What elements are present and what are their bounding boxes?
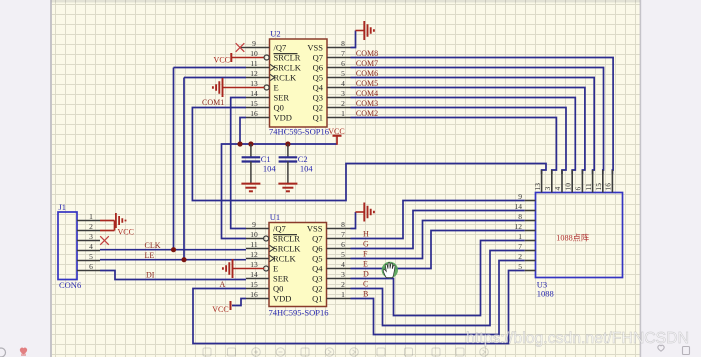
- svg-text:1: 1: [518, 232, 522, 241]
- svg-text:E: E: [363, 260, 368, 269]
- svg-text:6: 6: [341, 59, 345, 68]
- svg-text:12: 12: [250, 69, 258, 78]
- svg-text:16: 16: [604, 183, 613, 191]
- svg-text:5: 5: [89, 252, 93, 261]
- svg-text:15: 15: [594, 183, 603, 191]
- svg-text:B: B: [363, 290, 368, 299]
- power VCC at J1 pins 1-2: [100, 213, 134, 237]
- junction VCC rail / U2 VDD: [237, 141, 242, 146]
- wire net SER chain U1 /Q7 to U2 SER: [231, 98, 246, 229]
- svg-text:14: 14: [250, 89, 258, 98]
- wire U1 VSS to ground: [351, 212, 356, 229]
- svg-text:U2: U2: [270, 29, 280, 39]
- C1 designator and value 104: [261, 154, 277, 174]
- player control icons bottom: [203, 348, 488, 357]
- svg-text:C1: C1: [261, 154, 271, 164]
- svg-text:15: 15: [250, 280, 258, 289]
- svg-text:7: 7: [341, 230, 345, 239]
- svg-text:E: E: [273, 263, 278, 273]
- wire net COM1: [192, 108, 546, 201]
- power VCC at U2 VDD rail: [328, 127, 344, 145]
- svg-text:Q1: Q1: [313, 112, 323, 122]
- svg-text:Q3: Q3: [313, 92, 323, 102]
- svg-text:RCLK: RCLK: [274, 72, 298, 82]
- ground at U2 VSS pin 8: [356, 21, 374, 40]
- svg-text:C: C: [363, 280, 368, 289]
- svg-text:SER: SER: [274, 92, 290, 102]
- svg-text:VSS: VSS: [307, 223, 323, 233]
- svg-text:VCC: VCC: [328, 127, 344, 136]
- svg-text:104: 104: [300, 164, 314, 174]
- svg-text:12: 12: [250, 250, 258, 259]
- wire net COM8: [351, 58, 614, 175]
- svg-text:COM2: COM2: [356, 109, 378, 118]
- no-connect X on J1 pin 3: [100, 236, 109, 245]
- svg-text:VCC: VCC: [118, 228, 134, 237]
- svg-text:Q4: Q4: [312, 263, 323, 273]
- junction LE: [181, 257, 186, 262]
- svg-text:1: 1: [341, 109, 345, 118]
- svg-text:Q7: Q7: [312, 233, 322, 243]
- svg-text:Q4: Q4: [313, 82, 324, 92]
- U2 right pin numbers: [341, 39, 345, 118]
- svg-text:11: 11: [250, 59, 257, 68]
- svg-text:11: 11: [584, 183, 593, 190]
- svg-text:SRCLK: SRCLK: [274, 62, 302, 72]
- svg-text:3: 3: [341, 270, 345, 279]
- svg-text:COM1: COM1: [202, 98, 224, 107]
- svg-text:3: 3: [543, 187, 552, 191]
- svg-text:1088点阵: 1088点阵: [556, 232, 589, 242]
- svg-text:13: 13: [250, 260, 258, 269]
- svg-text:CON6: CON6: [59, 280, 81, 290]
- svg-text:104: 104: [263, 164, 277, 174]
- svg-text:5: 5: [518, 262, 522, 271]
- svg-text:COM4: COM4: [356, 89, 378, 98]
- svg-text:H: H: [363, 230, 369, 239]
- svg-text:C2: C2: [298, 154, 308, 164]
- svg-text:https://blog.csdn.net/FHNCSDN: https://blog.csdn.net/FHNCSDN: [466, 330, 689, 347]
- wire net COM7: [351, 68, 604, 175]
- svg-text:SER: SER: [273, 273, 289, 283]
- svg-text:Q2: Q2: [312, 283, 322, 293]
- svg-text:2: 2: [341, 99, 345, 108]
- IC U2 74HC595 body: [270, 39, 328, 127]
- svg-text:6: 6: [89, 262, 93, 271]
- svg-text:15: 15: [250, 99, 258, 108]
- svg-text:5: 5: [341, 250, 345, 259]
- wire U1 VDD to VCC: [232, 299, 246, 306]
- wire net LE: [100, 259, 246, 261]
- wire net COM2: [351, 118, 557, 175]
- wire net COM5: [351, 88, 585, 175]
- svg-text:8: 8: [341, 220, 345, 229]
- ground at U2 pin 13: [213, 78, 264, 97]
- junction VCC rail / C1: [248, 141, 253, 146]
- svg-text:VCC: VCC: [212, 305, 228, 314]
- svg-text:3: 3: [89, 232, 93, 241]
- wire net VCC rail (U2 VDD, C1, C2, U1 SRCLR): [240, 118, 246, 145]
- junction CLK: [171, 247, 176, 252]
- svg-text:10: 10: [563, 183, 572, 191]
- wire net E: [351, 231, 525, 269]
- connector J1 body: [58, 212, 77, 280]
- svg-text:DI: DI: [146, 271, 155, 280]
- mouse cursor highlight: [382, 262, 398, 278]
- svg-text:16: 16: [250, 290, 258, 299]
- svg-text:Q6: Q6: [313, 62, 323, 72]
- wire net F: [351, 221, 525, 259]
- U2 left pins 9-16: [231, 48, 274, 118]
- svg-text:/Q7: /Q7: [273, 223, 286, 233]
- svg-text:9: 9: [518, 192, 522, 201]
- svg-text:14: 14: [515, 202, 523, 211]
- dot matrix U3 body: [536, 193, 623, 278]
- svg-text:2: 2: [341, 280, 345, 289]
- U1 left pin numbers: [250, 220, 258, 299]
- svg-text:VSS: VSS: [307, 42, 323, 52]
- svg-text:J1: J1: [59, 202, 67, 212]
- svg-text:11: 11: [250, 240, 257, 249]
- U1 right pins 1-8: [327, 229, 351, 299]
- svg-text:/Q7: /Q7: [274, 42, 287, 52]
- svg-text:7: 7: [341, 49, 345, 58]
- svg-text:4: 4: [341, 260, 345, 269]
- U3 left pins: [525, 201, 536, 271]
- svg-text:1088: 1088: [537, 289, 554, 299]
- svg-text:SRCLK: SRCLK: [273, 243, 301, 253]
- svg-text:4: 4: [341, 79, 345, 88]
- wire U2 VSS to ground: [351, 31, 356, 48]
- connector J1 pins: [77, 221, 100, 271]
- svg-text:74HC595-SOP16: 74HC595-SOP16: [269, 127, 329, 137]
- svg-text:E: E: [274, 82, 279, 92]
- svg-text:3: 3: [341, 89, 345, 98]
- svg-text:5: 5: [341, 69, 345, 78]
- svg-text:Q3: Q3: [312, 273, 322, 283]
- svg-text:2: 2: [518, 252, 522, 261]
- svg-text:Q7: Q7: [313, 52, 323, 62]
- U2 pin labels: [274, 42, 324, 122]
- svg-text:13: 13: [533, 183, 542, 191]
- J1 pin numbers: [89, 212, 93, 271]
- svg-text:Q2: Q2: [313, 102, 323, 112]
- wire net B: [351, 261, 525, 335]
- U1 left pins 9-16: [246, 229, 274, 299]
- U2 left pin numbers: [250, 39, 258, 118]
- U3 left pin numbers: [515, 192, 523, 271]
- svg-text:12: 12: [515, 222, 523, 231]
- svg-text:Q5: Q5: [313, 72, 323, 82]
- svg-text:VDD: VDD: [274, 112, 292, 122]
- svg-text:8: 8: [518, 212, 522, 221]
- svg-text:COM7: COM7: [356, 59, 378, 68]
- junction VCC rail / C2: [285, 141, 290, 146]
- svg-text:U1: U1: [270, 212, 280, 222]
- U1 right pin numbers: [341, 220, 345, 299]
- svg-text:2: 2: [89, 222, 93, 231]
- svg-text:10: 10: [250, 49, 258, 58]
- svg-text:1: 1: [341, 290, 345, 299]
- svg-text:74HC595-SOP16: 74HC595-SOP16: [269, 308, 329, 318]
- wire net COM4: [351, 98, 576, 175]
- svg-text:13: 13: [250, 79, 258, 88]
- wire net CLK: [100, 249, 246, 251]
- svg-text:COM3: COM3: [356, 99, 378, 108]
- svg-text:7: 7: [518, 242, 522, 251]
- svg-text:COM6: COM6: [356, 69, 378, 78]
- svg-text:14: 14: [250, 270, 258, 279]
- wire net DI: [100, 271, 246, 280]
- svg-text:16: 16: [250, 109, 258, 118]
- capacitor C1: [241, 144, 260, 191]
- svg-text:1: 1: [89, 212, 93, 221]
- power VCC bar at U2 pin 10: [214, 53, 232, 64]
- svg-text:LE: LE: [145, 251, 155, 260]
- svg-text:4: 4: [553, 187, 562, 191]
- svg-text:9: 9: [252, 220, 256, 229]
- wire net C: [351, 251, 525, 326]
- C2 designator and value 104: [298, 154, 314, 174]
- U3 top pin numbers: [533, 183, 613, 191]
- IC U1 74HC595 body: [269, 223, 327, 307]
- svg-text:10: 10: [250, 230, 258, 239]
- svg-text:Q6: Q6: [312, 243, 322, 253]
- ground at U1 pin 13: [223, 259, 264, 278]
- svg-text:VCC: VCC: [214, 55, 230, 64]
- wire net A: [193, 271, 525, 344]
- svg-text:Q0: Q0: [274, 102, 284, 112]
- svg-text:VDD: VDD: [273, 293, 291, 303]
- wire net G: [351, 211, 525, 249]
- svg-text:A: A: [220, 280, 226, 289]
- no-connect X on U2 pin 9 /Q7: [240, 47, 246, 49]
- svg-text:RCLK: RCLK: [273, 253, 297, 263]
- power VCC at U1 VDD: [212, 301, 230, 314]
- svg-text:Q5: Q5: [312, 253, 322, 263]
- right margin icons: [658, 345, 690, 354]
- svg-text:Q1: Q1: [312, 293, 322, 303]
- wire net COM3: [351, 108, 567, 175]
- svg-text:D: D: [363, 270, 369, 279]
- wire net COM6: [351, 78, 595, 175]
- U3 top pins: [542, 170, 613, 193]
- svg-text:4: 4: [89, 242, 93, 251]
- svg-text:COM5: COM5: [356, 79, 378, 88]
- svg-text:6: 6: [574, 187, 583, 191]
- ground at U1 VSS pin 8: [356, 203, 374, 222]
- svg-text:6: 6: [341, 240, 345, 249]
- svg-text:9: 9: [252, 39, 256, 48]
- svg-text:COM8: COM8: [356, 49, 378, 58]
- svg-text:F: F: [363, 250, 368, 259]
- svg-text:G: G: [363, 240, 369, 249]
- svg-text:Q0: Q0: [273, 283, 283, 293]
- svg-text:8: 8: [341, 39, 345, 48]
- bottom-left player icons: [0, 348, 27, 357]
- U1 pin labels: [273, 223, 323, 303]
- wire net H: [351, 201, 525, 239]
- U2 right pins 1-8: [327, 48, 351, 118]
- svg-text:CLK: CLK: [145, 241, 161, 250]
- capacitor C2: [278, 144, 297, 191]
- wire net D: [351, 241, 525, 316]
